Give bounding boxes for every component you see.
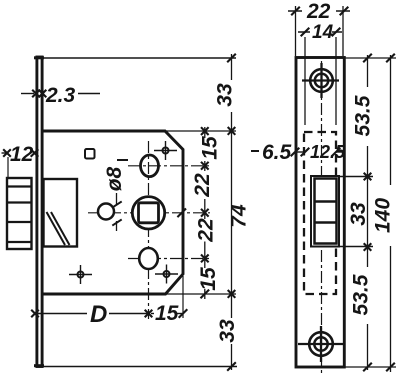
dim chain line (204, 127, 206, 299)
wire top extension line (43, 57, 236, 59)
svg-text:22: 22 (191, 173, 214, 198)
wire bottom extension line (43, 366, 237, 368)
phi8 arrow ticks (112, 201, 121, 225)
dim 140 line (390, 55, 392, 372)
phi8 leader line (116, 193, 118, 205)
svg-text:12: 12 (10, 143, 34, 166)
extension case right bottom (182, 276, 184, 318)
dim 12 extension (7, 157, 9, 177)
faceplate side view (37, 57, 42, 367)
phi8 leader dash (117, 159, 128, 161)
extension pocket lines (304, 37, 306, 125)
dim D ticks (31, 309, 187, 318)
latch front view (311, 176, 339, 247)
svg-text:53.5: 53.5 (352, 95, 375, 136)
square hole (85, 149, 95, 159)
latch spring diagonal 2 (51, 212, 70, 245)
centerline follower (88, 212, 210, 214)
screw hole top (310, 69, 333, 92)
latch box inside case (44, 179, 78, 247)
svg-text:15: 15 (197, 267, 220, 291)
dim 12 ticks (3, 149, 38, 157)
svg-text:ø8: ø8 (103, 166, 126, 191)
svg-text:33: 33 (216, 319, 239, 343)
cylinder hole (139, 248, 158, 269)
post top right (154, 141, 177, 160)
dim 2.3 leader (21, 93, 34, 95)
ticks 33-74-33 (227, 54, 236, 371)
centerline faceplate (321, 61, 323, 374)
tick at case edge (177, 209, 186, 218)
latch bolt head (7, 178, 32, 249)
centerline top hole (128, 165, 210, 167)
svg-text:140: 140 (372, 198, 395, 233)
latch spring diagonal (47, 212, 66, 245)
post bottom right (155, 265, 178, 284)
dim D line (36, 313, 87, 315)
latch bolt bands (7, 187, 32, 243)
extension latch top (340, 176, 373, 178)
svg-text:12.5: 12.5 (310, 142, 346, 162)
dim 2.3 ticks (32, 90, 46, 98)
dim 22 line (288, 10, 350, 12)
wire case bottom thin extension (165, 293, 236, 295)
hole phi8 (98, 204, 114, 220)
centerline vertical (148, 141, 150, 319)
wire case top thin extension (165, 130, 236, 132)
phi8 leader line lower (116, 221, 118, 231)
svg-text:22: 22 (306, 0, 331, 23)
lock case outline (43, 131, 183, 294)
svg-text:6.5: 6.5 (262, 141, 292, 164)
latch pocket dashed (304, 132, 336, 294)
extension latch bottom (340, 246, 373, 248)
follower hole (132, 197, 164, 229)
svg-text:33: 33 (214, 83, 237, 107)
svg-text:74: 74 (228, 204, 251, 228)
svg-text:D: D (90, 301, 107, 328)
faceplate front outline (296, 58, 344, 368)
post bottom left (69, 265, 92, 284)
chain ticks (201, 127, 210, 298)
dim 14 line (298, 31, 342, 33)
follower square (139, 203, 159, 223)
svg-text:2.3: 2.3 (45, 84, 76, 107)
top hole (141, 155, 159, 177)
dim 53.5-33-53.5 line (367, 55, 369, 370)
svg-text:15: 15 (199, 136, 222, 160)
svg-text:33: 33 (347, 202, 370, 226)
dim line 33-74-33 (231, 54, 233, 370)
svg-text:14: 14 (312, 22, 334, 43)
dim 12 line (2, 152, 7, 154)
screw hole bottom (309, 332, 333, 356)
svg-text:53.5: 53.5 (350, 274, 373, 315)
dim 6.5 leader (251, 150, 259, 152)
centerline cylinder hole (128, 258, 210, 260)
svg-text:22: 22 (195, 218, 218, 243)
extension plate bottom right (344, 366, 397, 368)
svg-text:15: 15 (155, 302, 179, 325)
extension plate top corners (295, 6, 297, 56)
extension plate top right (344, 57, 397, 59)
dim 6.5/12.5 line (295, 151, 305, 153)
